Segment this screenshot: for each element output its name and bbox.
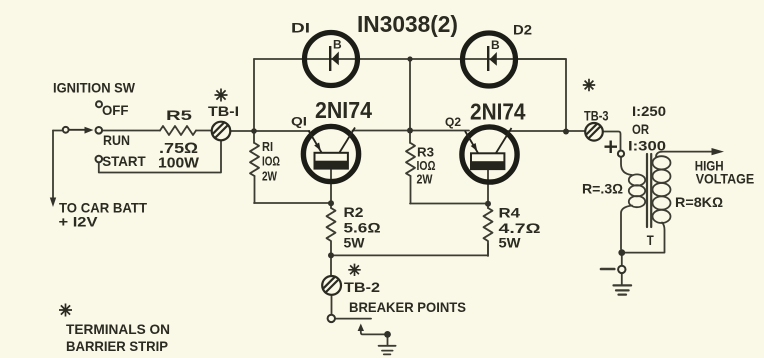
svg-text:5W: 5W [499,234,522,250]
svg-text:R2: R2 [344,204,364,220]
svg-text:I:300: I:300 [628,138,666,154]
svg-text:+ I2V: + I2V [59,213,99,229]
svg-text:TB-2: TB-2 [344,279,380,295]
svg-text:BARRIER STRIP: BARRIER STRIP [66,338,168,354]
svg-text:B: B [491,38,500,52]
svg-text:2NI74: 2NI74 [470,98,526,124]
svg-text:R=8KΩ: R=8KΩ [675,194,723,210]
svg-text:VOLTAGE: VOLTAGE [696,171,755,187]
svg-text:TB-3: TB-3 [584,108,609,124]
svg-text:TB-I: TB-I [208,103,239,119]
svg-text:IOΩ: IOΩ [262,153,280,168]
svg-text:I:250: I:250 [632,103,666,119]
svg-text:BREAKER POINTS: BREAKER POINTS [349,299,466,315]
svg-text:5W: 5W [344,234,366,250]
svg-text:DI: DI [291,20,310,36]
svg-text:T: T [647,233,655,248]
svg-text:R5: R5 [166,107,192,123]
svg-text:OFF: OFF [102,102,129,118]
svg-text:R4: R4 [499,205,521,221]
svg-text:IN3038(2): IN3038(2) [357,11,458,37]
svg-text:IGNITION SW: IGNITION SW [53,80,136,96]
svg-text:100W: 100W [158,156,199,172]
svg-text:2NI74: 2NI74 [315,97,372,123]
svg-text:D2: D2 [513,22,532,38]
svg-text:OR: OR [632,121,649,137]
svg-text:Q2: Q2 [445,115,461,129]
svg-text:2W: 2W [417,172,434,187]
svg-text:QI: QI [291,115,307,129]
svg-text:RI: RI [262,139,273,154]
svg-text:2W: 2W [262,168,278,183]
svg-text:RUN: RUN [103,132,130,148]
svg-text:R=.3Ω: R=.3Ω [582,180,623,196]
svg-text:TERMINALS ON: TERMINALS ON [66,321,170,337]
svg-text:5.6Ω: 5.6Ω [344,219,381,235]
svg-text:B: B [333,38,342,52]
svg-text:START: START [102,153,146,169]
